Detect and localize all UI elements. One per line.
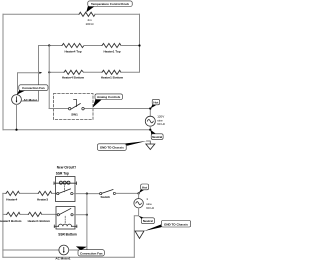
wire bottom row2 left bbox=[3, 213, 7, 215]
relay SSR Bottom box bbox=[56, 207, 75, 230]
svg-text:Heater1 Bottom: Heater1 Bottom bbox=[28, 219, 51, 223]
wire SSR Bottom out bbox=[73, 214, 87, 216]
wire A to motor right bbox=[22, 100, 39, 102]
svg-text:Heater1 Top: Heater1 Top bbox=[103, 49, 120, 53]
AC motor M2 (convection fan) bbox=[59, 245, 69, 255]
svg-text:Neutral: Neutral bbox=[143, 219, 153, 223]
SSR Top coil bbox=[54, 182, 77, 184]
node motor-rail junction bbox=[15, 129, 17, 131]
wire row1 left bbox=[39, 45, 63, 47]
SSR Top link dashed bbox=[64, 186, 66, 192]
svg-text:Heater4 Bottom: Heater4 Bottom bbox=[62, 76, 85, 80]
SSR Bottom switch bbox=[57, 214, 59, 216]
wire bottom row1 left corner bbox=[3, 192, 6, 194]
SW1 dashed enclosure bbox=[54, 94, 94, 120]
node row2-B junction bbox=[48, 71, 50, 73]
wire bottom return rail1 bbox=[3, 129, 150, 131]
relay SSR Top box bbox=[56, 177, 76, 202]
svg-text:GND TO Chassis: GND TO Chassis bbox=[164, 222, 188, 226]
svg-text:Heater3: Heater3 bbox=[37, 198, 48, 202]
switch SW1 bbox=[69, 108, 71, 110]
svg-text:AC Motor: AC Motor bbox=[24, 98, 38, 102]
wire bottom left vertical bbox=[2, 193, 4, 257]
svg-text:Switch: Switch bbox=[100, 195, 110, 199]
wire motor row bottom bbox=[3, 249, 59, 251]
resistor Heater4 bbox=[6, 191, 20, 195]
wire top rail left segment bbox=[3, 13, 79, 15]
wire row2 mid bbox=[84, 71, 103, 73]
svg-text:SSR Bottom: SSR Bottom bbox=[58, 232, 77, 236]
wire bottom rail bbox=[3, 256, 134, 258]
callout GND TO Chassis (bottom) bbox=[144, 224, 162, 231]
svg-text:Heater4: Heater4 bbox=[6, 198, 17, 202]
svg-text:100 Ω: 100 Ω bbox=[85, 22, 94, 26]
ground top (to chassis) bbox=[147, 141, 151, 144]
callout Temperature Control Knob bbox=[86, 5, 94, 13]
wire SSR Top out bbox=[73, 193, 100, 195]
AC source V1 120V top bbox=[149, 109, 151, 117]
wire row1 mid bbox=[84, 45, 102, 47]
ground bottom (to chassis) bbox=[135, 231, 144, 239]
svg-text:Heater4 Top: Heater4 Top bbox=[64, 49, 81, 53]
wire row1 mid bbox=[20, 192, 39, 194]
callout Analog Controls bbox=[93, 99, 102, 108]
wire top rail right segment bbox=[95, 13, 140, 15]
callout Neutral (top) bbox=[151, 130, 157, 135]
wire vertical B bbox=[48, 46, 50, 109]
svg-text:SSR Top: SSR Top bbox=[56, 172, 69, 176]
resistor Heater2 Bottom bbox=[7, 212, 20, 216]
wire SW1 row bbox=[49, 108, 68, 110]
callout Neutral (bottom) bbox=[138, 216, 145, 219]
wire into SSR Bottom bbox=[42, 213, 58, 215]
callout Hot (top) bbox=[150, 104, 156, 108]
node junction vert86 row1 bbox=[86, 193, 88, 195]
wire switch to hot bbox=[116, 192, 139, 194]
SSR Top switch bbox=[57, 193, 59, 195]
AC source V2 120V bottom bbox=[138, 193, 140, 198]
callout Convection Fan (top) bbox=[17, 90, 25, 95]
SSR Bottom coil bbox=[54, 225, 58, 227]
callout Hot (bottom) bbox=[139, 189, 145, 193]
wire motor bottom bbox=[16, 104, 18, 129]
svg-text:Analog Controls: Analog Controls bbox=[97, 95, 121, 99]
svg-text:Convection Fan: Convection Fan bbox=[80, 251, 103, 255]
resistor Heater4 Top bbox=[62, 43, 84, 47]
svg-text:SW1: SW1 bbox=[71, 113, 78, 117]
svg-text:Heater2 Bottom: Heater2 Bottom bbox=[0, 219, 22, 223]
wire row1 right bbox=[121, 45, 140, 47]
node row1-right junction bbox=[138, 44, 140, 46]
wire vertical 86.9 bbox=[86, 194, 88, 250]
wire motor right bbox=[69, 249, 87, 251]
callout GND TO Chassis (top) bbox=[121, 141, 147, 146]
AC motor M1 bbox=[12, 95, 22, 105]
wire vertical A bbox=[38, 46, 40, 102]
svg-text:Heater1 Bottom: Heater1 Bottom bbox=[101, 76, 124, 80]
svg-text:60 Hz: 60 Hz bbox=[146, 206, 154, 210]
resistor Heater4 Bottom bbox=[64, 70, 84, 74]
resistor Heater1 Bottom bbox=[102, 70, 121, 74]
svg-text:Hot: Hot bbox=[153, 101, 158, 105]
wire right vertical bbox=[139, 14, 141, 72]
svg-text:Temperature Control Knob: Temperature Control Knob bbox=[91, 2, 129, 6]
switch Switch (bottom) bbox=[100, 193, 102, 195]
wire into SSR Top bbox=[52, 192, 57, 194]
wire row2 right bbox=[121, 71, 140, 73]
svg-text:GND TO Chassis: GND TO Chassis bbox=[100, 146, 124, 150]
resistor Heater1 Bottom (bottom section) bbox=[28, 212, 41, 216]
wire row2 left bbox=[49, 71, 64, 73]
svg-text:60 Hz: 60 Hz bbox=[157, 122, 165, 126]
svg-text:Neutral: Neutral bbox=[152, 135, 162, 139]
svg-text:New Circuit?: New Circuit? bbox=[57, 165, 77, 169]
wire left rail bbox=[2, 14, 4, 129]
resistor Heater1 Top bbox=[102, 43, 121, 47]
node row1-B junction bbox=[48, 44, 50, 46]
resistor Heater3 bbox=[38, 191, 52, 195]
wire row2 mid bbox=[20, 213, 28, 215]
callout Convection Fan (bottom) bbox=[76, 246, 87, 250]
svg-text:AC Motor1: AC Motor1 bbox=[55, 256, 70, 260]
SSR Bottom link dashed bbox=[64, 216, 66, 223]
potentiometer R1 100 Ohm bbox=[79, 12, 95, 16]
wire motor top riser with arrow bbox=[18, 73, 41, 95]
svg-text:Hot: Hot bbox=[142, 185, 147, 189]
svg-text:Convection Fan: Convection Fan bbox=[22, 86, 45, 90]
